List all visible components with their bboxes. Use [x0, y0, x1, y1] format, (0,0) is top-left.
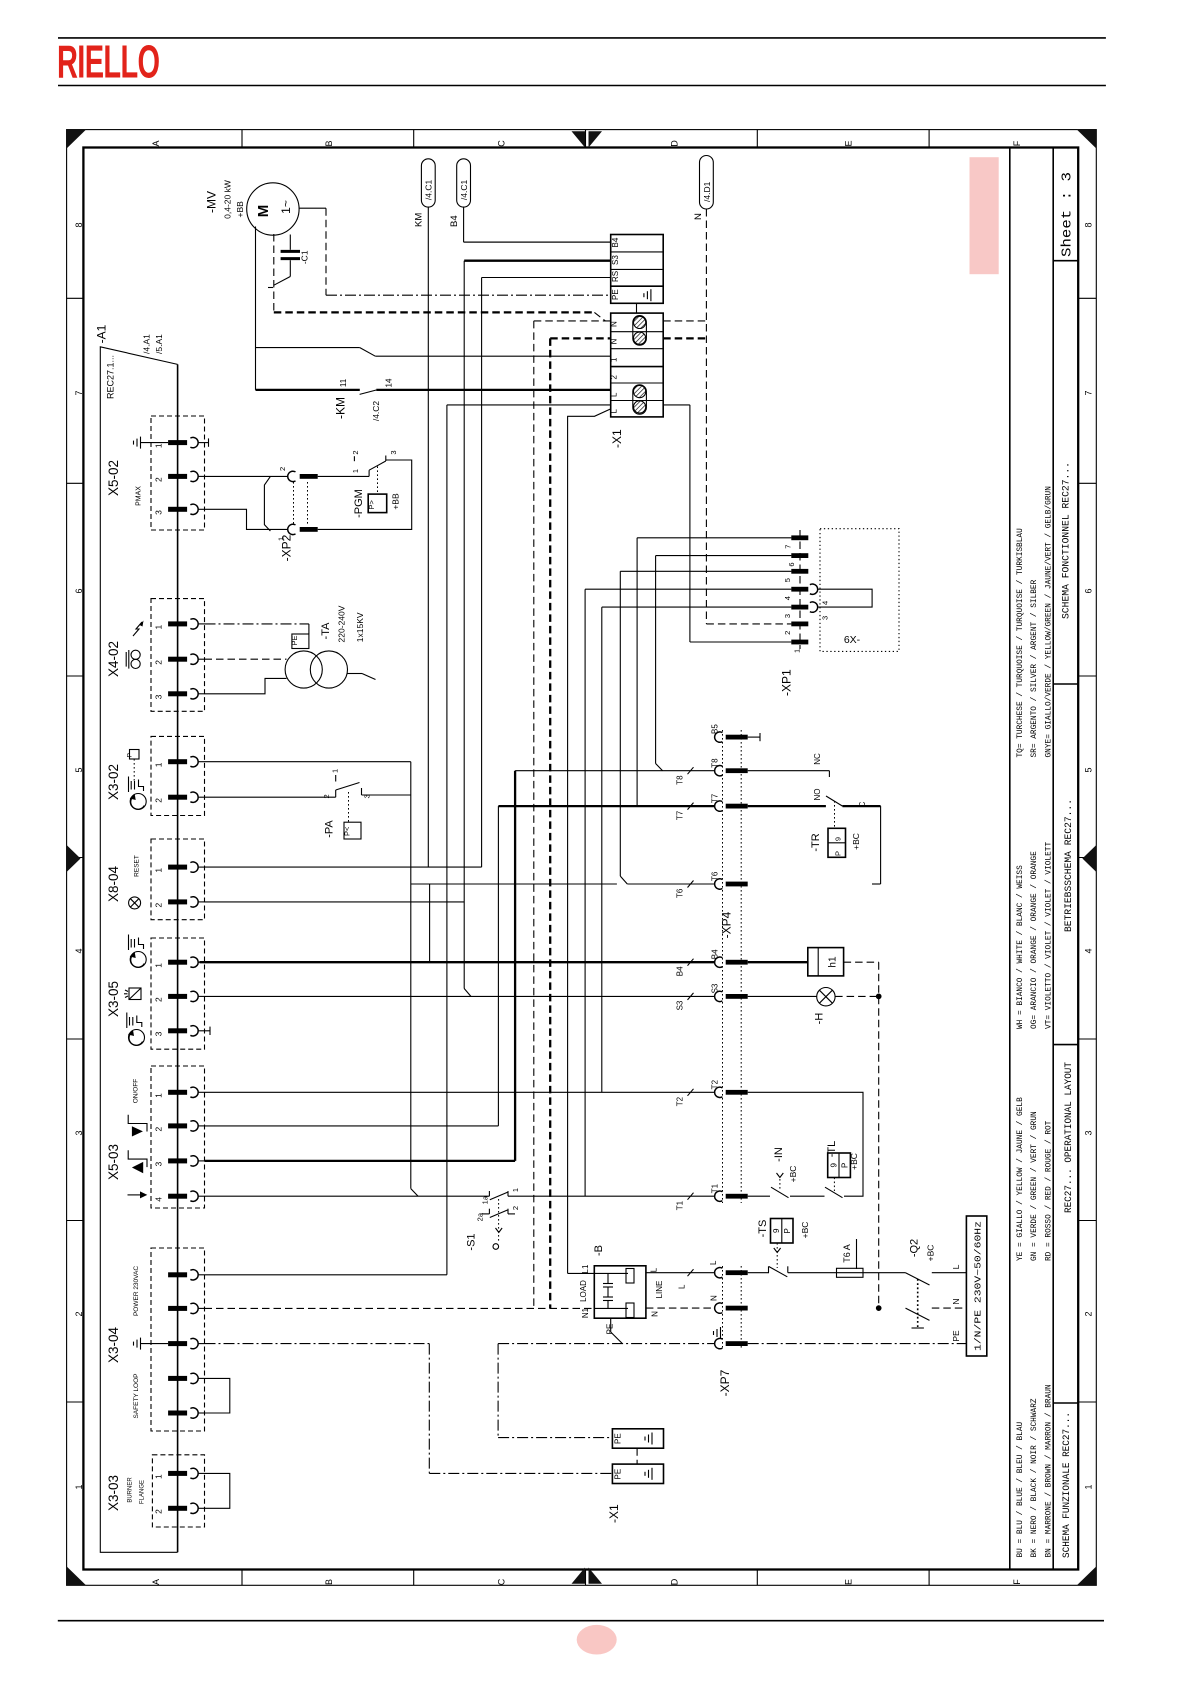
wire to XP1 pin1 [690, 641, 792, 643]
svg-text:2: 2 [322, 794, 331, 798]
transformer TA secondary circle [310, 651, 347, 688]
svg-text:PE: PE [614, 1433, 623, 1444]
wire B4 pill to X1 B4 row [463, 207, 465, 242]
svg-text:X3-02: X3-02 [106, 764, 121, 800]
TA high voltage output [348, 673, 363, 675]
capacitor C1 [289, 235, 291, 250]
fuse label underline [856, 1239, 858, 1269]
svg-text:BK = NERO / BLACK / NOIR / SCH: BK = NERO / BLACK / NOIR / SCHWARZ [1031, 1398, 1039, 1557]
connector XP2 pin 1 [300, 527, 318, 532]
svg-text:-TS: -TS [757, 1220, 769, 1238]
wire PE1 to X1 PE terminal 2 [429, 1472, 612, 1474]
svg-text:2: 2 [351, 450, 360, 454]
frame right strip divider [1078, 675, 1096, 677]
svg-text:6: 6 [74, 588, 84, 593]
svg-text:X3-03: X3-03 [106, 1475, 121, 1511]
wire lane N dashed from h1 to XP7 N [878, 962, 880, 1308]
wire T2 loop right side [748, 1092, 863, 1196]
frame top strip divider [585, 130, 587, 148]
svg-text:2: 2 [154, 1126, 164, 1131]
wire lane X1 L2 to XP1 pin1 [689, 405, 691, 642]
filter B box [594, 1266, 646, 1318]
svg-text:N: N [651, 1311, 660, 1317]
motor enclosure dashed box [273, 234, 275, 312]
svg-text:P: P [833, 851, 842, 856]
wire lane T6 to B4 junction [429, 884, 431, 962]
XP4 body dotted line 2 [740, 730, 742, 1203]
svg-text:RS: RS [611, 271, 620, 282]
svg-text:7: 7 [1084, 390, 1094, 395]
frame outer border [67, 130, 1097, 1586]
svg-text:T1: T1 [711, 1183, 720, 1193]
svg-text:C: C [497, 1578, 507, 1585]
svg-text:-TL: -TL [826, 1141, 838, 1158]
wire lamp H to N lane (dashed) [835, 995, 879, 997]
svg-text:B5: B5 [711, 724, 720, 734]
svg-text:X5-03: X5-03 [106, 1144, 121, 1180]
svg-text:PE: PE [611, 289, 620, 300]
frame left strip divider [67, 1401, 84, 1403]
connector X3-03 pin 1 [168, 1471, 187, 1476]
wire B L to XP7 L [646, 1272, 715, 1274]
svg-text:/4.A1: /4.A1 [141, 334, 151, 354]
terminal X1 PE box 2 [612, 1464, 663, 1483]
svg-text:T1: T1 [676, 1200, 685, 1210]
switch S1 contact A [488, 1191, 490, 1196]
svg-text:BU = BLU / BLUE / BLEU / BLAU: BU = BLU / BLUE / BLEU / BLAU [1017, 1421, 1025, 1557]
fold mark right-center [1082, 845, 1096, 872]
svg-text:N1: N1 [581, 1307, 590, 1318]
socket arc XP2 pin2 [288, 471, 296, 481]
svg-text:/4.D1: /4.D1 [702, 181, 712, 202]
svg-text:2: 2 [154, 660, 164, 665]
switch TS contact blade [768, 1266, 770, 1272]
svg-text:X3-05: X3-05 [106, 981, 121, 1017]
connector XP2 shell bracket [264, 476, 270, 531]
svg-text:220-240V: 220-240V [336, 605, 346, 642]
svg-text:D: D [670, 140, 680, 147]
svg-text:14: 14 [385, 378, 394, 387]
wire T1 from X5-03 pin4 [205, 1195, 490, 1197]
frame bottom strip divider [928, 1570, 930, 1586]
frame top strip divider [928, 130, 930, 148]
wire B4 to h1 (thick) [748, 961, 808, 963]
svg-text:3: 3 [74, 1130, 84, 1135]
frame left strip divider [67, 1220, 84, 1222]
svg-text:3: 3 [154, 1031, 164, 1036]
svg-text:-MV: -MV [204, 191, 218, 213]
svg-text:2: 2 [154, 477, 164, 482]
svg-text:2: 2 [278, 467, 287, 471]
svg-text:L: L [610, 392, 619, 397]
svg-text:L: L [650, 1267, 659, 1272]
pressure icon box X3-02 [130, 750, 140, 760]
svg-text:/4.C1: /4.C1 [424, 180, 434, 201]
connector X9 dotted box [820, 529, 899, 652]
svg-text:7: 7 [74, 390, 84, 395]
wire lane XP1 pin6 to T8 [655, 556, 657, 764]
connector X3-04 pin L [168, 1272, 187, 1277]
frame bottom strip divider [585, 1570, 587, 1586]
legend panel middle border [1052, 148, 1054, 1570]
svg-text:-A1: -A1 [95, 324, 109, 343]
wire N row 2 to N pill lane (thick dashed) [663, 337, 706, 339]
svg-text:X8-04: X8-04 [106, 865, 121, 902]
svg-text:-PA: -PA [323, 820, 335, 838]
svg-text:T2: T2 [711, 1079, 720, 1089]
wire PE dash-dot to XP7 PE [498, 1343, 714, 1345]
wire XP1 pin3 [602, 606, 792, 608]
TS actuator dotted link [776, 1243, 778, 1268]
contact XP4 T8 [715, 766, 723, 776]
wire X5-02 pin3 to XP2 pin1 [205, 509, 288, 529]
svg-text:N: N [951, 1298, 961, 1304]
svg-text:4: 4 [821, 601, 830, 605]
svg-text:D: D [670, 1578, 680, 1585]
XP4 body dotted line 1 [722, 730, 724, 1203]
connector X5-03 pin 4 [168, 1194, 187, 1199]
svg-text:-TR: -TR [810, 833, 822, 851]
wire lane L to filter B [567, 416, 569, 1273]
svg-text:PE: PE [290, 635, 299, 645]
connector XP1 pin 2 [791, 622, 808, 627]
svg-text:2: 2 [511, 1206, 520, 1210]
svg-text:-XP7: -XP7 [718, 1369, 732, 1396]
wire lane N1 (dashed) [533, 321, 535, 1309]
fold mark bottom-left [67, 1566, 86, 1585]
pressure icon dashed link [133, 759, 135, 782]
wire lane RS to X8-04 pin1 [481, 278, 483, 868]
connector X5-03 pin 2 [168, 1123, 187, 1128]
svg-text:WH = BIANCO / WHITE / BLANC /: WH = BIANCO / WHITE / BLANC / WEISS [1017, 865, 1025, 1029]
jog XP1 pin5 lane to T6 wire [620, 876, 627, 884]
cross-reference pill N /4.D1 [700, 156, 714, 210]
svg-text:1: 1 [792, 649, 801, 653]
svg-text:/4.C2: /4.C2 [371, 401, 381, 422]
svg-text:E: E [843, 1579, 853, 1585]
svg-text:h1: h1 [828, 956, 839, 968]
connector X3-02 pin 2 [168, 795, 187, 800]
XP1 connector body dashed line [799, 530, 801, 649]
arrow icon X5-03 pin4 [128, 1194, 142, 1196]
svg-text:P<: P< [343, 826, 352, 836]
svg-text:RD = ROSSO / RED / ROUGE / ROT: RD = ROSSO / RED / ROUGE / ROT [1045, 1120, 1053, 1261]
wire N row 1 dashed left branch [534, 320, 611, 322]
svg-text:S3: S3 [711, 983, 720, 993]
svg-text:L1: L1 [581, 1264, 590, 1273]
wire N row 2 thick dashed left branch [550, 337, 611, 339]
terminator tick X5-02 pin1 [205, 442, 209, 444]
connector X4-02 pin 2 [168, 657, 187, 662]
wire X8-04 pin1 to RS lane [205, 866, 482, 868]
centrifugal switch in motor [274, 277, 290, 286]
svg-text:OG= ARANCIO / ORANGE / ORANGE: OG= ARANCIO / ORANGE / ORANGE / ORANGE [1031, 851, 1039, 1029]
svg-text:-C1: -C1 [299, 250, 309, 264]
frame right strip divider [1078, 482, 1096, 484]
burner flange jumper wire [205, 1473, 230, 1508]
connector X8-04 pin 2 [168, 899, 187, 904]
svg-text:NC: NC [813, 753, 822, 765]
svg-text:1: 1 [74, 1484, 84, 1489]
motor MV circle [247, 183, 299, 235]
svg-text:N: N [693, 213, 704, 220]
svg-text:3: 3 [821, 616, 830, 620]
jog XP1 pin6 lane to T8 wire [656, 764, 663, 771]
switch S1 contact B (spare) [482, 1213, 489, 1215]
socket arc XP1 pin4 [810, 584, 818, 594]
svg-text:GN = VERDE / GREEN / VERT / GR: GN = VERDE / GREEN / VERT / GRUN [1031, 1111, 1039, 1261]
wire TS to fuse [788, 1272, 837, 1274]
ground symbol XP7 PE [720, 1327, 722, 1339]
wire N row 1 to N pill lane (dashed) [663, 320, 706, 322]
pressure switch PA box [344, 822, 361, 839]
switch Q2 N pole [906, 1308, 930, 1320]
XP7 body dotted line 1 [722, 1266, 724, 1350]
svg-text:1: 1 [351, 469, 360, 473]
frame right strip divider [1078, 1038, 1096, 1040]
svg-text:T6: T6 [676, 888, 685, 898]
ground symbol X1 PE row [650, 289, 652, 301]
connector XP1 pin 7 [791, 535, 808, 540]
svg-text:-KM: -KM [334, 397, 348, 419]
svg-text:Sheet : 3: Sheet : 3 [1061, 172, 1076, 257]
svg-text:-H: -H [814, 1013, 826, 1025]
safety loop jumper wire [205, 1378, 230, 1413]
svg-text:L: L [951, 1264, 961, 1269]
title column cell divider [1053, 683, 1078, 685]
wire lane T8 to X5-03 pin3 (thick) [514, 771, 516, 1161]
wire motor PE lead [299, 207, 326, 209]
connector XP1 pin 4 [791, 587, 808, 592]
contact XP4 T2 [715, 1087, 723, 1097]
frame right strip divider [1078, 297, 1096, 299]
contact TR blade [826, 796, 843, 806]
svg-text:1: 1 [154, 762, 164, 767]
switch Q2 L pole [906, 1273, 930, 1285]
wire B N to XP7 N (dashed) [646, 1307, 715, 1309]
svg-text:T7: T7 [711, 793, 720, 803]
svg-text:T6 A: T6 A [842, 1244, 852, 1263]
legend panel left border [1009, 148, 1011, 1570]
svg-text:SCHEMA FUNZIONALE REC27...: SCHEMA FUNZIONALE REC27... [1062, 1412, 1073, 1558]
wire earth to X5-02 pin1 bar [141, 442, 169, 444]
wire X3-02 pin2 to PA common [205, 796, 336, 798]
contact XP4 S3 [715, 991, 723, 1001]
connector X3-04 dashed box [151, 1248, 205, 1431]
fan icon X3-05 upper [130, 952, 146, 968]
svg-text:PE: PE [614, 1469, 623, 1480]
header top rule [58, 37, 1106, 39]
wire motor N (thick dashed) to X1 N [274, 311, 595, 313]
XP7 body dotted line 2 [740, 1266, 742, 1350]
svg-text:1: 1 [154, 624, 164, 629]
svg-text:F: F [1012, 140, 1022, 146]
wire lane X3-02 pin1 / T6 / X5-03 pin4 [410, 762, 412, 1189]
contact XP4 B5 [715, 732, 723, 742]
fuse T6A [837, 1268, 864, 1277]
wire lane XP1 pin3 to T2 [601, 607, 603, 1092]
wire S3 row (thick) [464, 260, 611, 262]
frame inner border [83, 148, 1078, 1570]
XP2 body dotted line 2 [307, 482, 309, 524]
thermostat TR box [828, 828, 846, 857]
svg-text:+BC: +BC [788, 1166, 798, 1183]
frame bottom strip divider [241, 1570, 243, 1586]
pressure switch PGM box [368, 494, 387, 512]
connector X3-04 pin PE [168, 1341, 187, 1346]
jog X1 L row to L lane [567, 409, 611, 416]
wire PGM 3 loop back to XP2 pin1 [318, 460, 412, 529]
wire X4-02 pin2 to TA (dashed) [205, 658, 287, 660]
svg-text:/4.C1: /4.C1 [459, 180, 469, 201]
svg-text:S3: S3 [611, 255, 620, 265]
connector X4-02 pin 1 [168, 621, 187, 626]
connector X5-02 dashed box [151, 416, 205, 530]
terminal block X1 lower [611, 313, 664, 417]
svg-text:FLANGE: FLANGE [140, 1480, 146, 1504]
fold mark top-left [67, 130, 86, 149]
svg-text:4: 4 [1084, 948, 1094, 953]
connector XP1 pin 5 [791, 569, 808, 574]
title column cell divider [1053, 260, 1078, 262]
ground symbol in A1 at X5-02 pin1 [140, 437, 142, 449]
ground symbol X3-04 PE pin [140, 1338, 142, 1350]
svg-text:X4-02: X4-02 [106, 641, 121, 677]
title column cell divider [1053, 1044, 1078, 1046]
connector X3-04 safety loop pin b [168, 1411, 187, 1416]
connector X8-04 pin 1 [168, 865, 187, 870]
svg-text:B4: B4 [449, 215, 460, 227]
svg-text:1~: 1~ [279, 200, 293, 214]
terminal block X1 upper [611, 235, 664, 304]
frame bottom strip divider [756, 1570, 758, 1586]
svg-text:RESET: RESET [134, 855, 141, 877]
jumper loop X9 pins 4-3 [818, 589, 872, 607]
wire X3-02 pin1 to lane [205, 761, 411, 763]
svg-text:3: 3 [154, 694, 164, 699]
stub B5 [748, 736, 760, 738]
svg-text:2a: 2a [476, 1212, 485, 1221]
svg-text:REC27... OPERATIONAL LAYOUT: REC27... OPERATIONAL LAYOUT [1064, 1062, 1075, 1213]
svg-text:A: A [151, 1579, 161, 1585]
svg-text:1/N/PE 230V~50/60Hz: 1/N/PE 230V~50/60Hz [972, 1221, 983, 1351]
contact XP4 T1 [715, 1191, 723, 1201]
terminator tick X3-05 pin3 [205, 1030, 211, 1032]
title column cell divider [1053, 1402, 1078, 1404]
connector XP1 pin 3 [791, 605, 808, 610]
wire X5-03 pin2 to T7 lane [205, 1125, 499, 1127]
pressure switch PA contact [335, 790, 337, 797]
wire L thick from motor to X1 (KM contact) [256, 389, 360, 391]
wire motor main lead down to KM line [255, 227, 257, 390]
svg-text:F: F [1012, 1579, 1022, 1585]
svg-text:-X1: -X1 [607, 1504, 621, 1523]
wire N pill dashed lane [705, 209, 707, 624]
wire lane XP1 pin7 to T7 [636, 538, 638, 806]
svg-text:3: 3 [783, 614, 792, 618]
connector X3-04 safety loop pin a [168, 1376, 187, 1381]
svg-text:1: 1 [154, 1474, 164, 1479]
frame left strip divider [67, 297, 84, 299]
svg-text:3: 3 [1084, 1130, 1094, 1135]
connector X3-02 dashed box [151, 736, 205, 815]
wire N dashed to B N1 [205, 1307, 595, 1309]
indicator h1 box [808, 948, 844, 976]
svg-text:LINE: LINE [655, 1281, 664, 1299]
wire lane PE2 (dash-dot) [497, 1344, 499, 1438]
svg-text:B: B [324, 1579, 334, 1585]
socket arc XP2 pin1 [288, 524, 296, 534]
filter B internal components [594, 1272, 628, 1274]
wire PE to mains box [748, 1343, 967, 1345]
connector XP2 pin 2 [300, 474, 318, 479]
connector X3-05 pin 3 [168, 1028, 187, 1033]
svg-text:2: 2 [783, 631, 792, 635]
svg-text:8: 8 [1084, 222, 1094, 227]
fold mark left-center [67, 845, 81, 872]
svg-text:C: C [497, 140, 507, 147]
svg-text:1: 1 [1084, 1484, 1094, 1489]
svg-text:-XP1: -XP1 [780, 669, 794, 696]
wire PE motor to X1 PE row (dash-dot) [326, 294, 611, 296]
X1 L terminals hatched circles [633, 385, 647, 414]
PA actuator dotted link [348, 792, 350, 822]
cross-reference pill KM /4.C1 [421, 159, 435, 207]
svg-text:-XP4: -XP4 [720, 911, 734, 938]
PGM actuator dotted link [377, 466, 379, 494]
wire lane S3 [463, 261, 465, 989]
frame left strip divider [67, 675, 84, 677]
wire PE2 to X1 PE terminal 1 [498, 1437, 612, 1439]
svg-text:2: 2 [154, 798, 164, 803]
wire X5-02 pin2 to XP2 pin2 [205, 475, 288, 477]
header bottom rule [58, 85, 1106, 87]
svg-text:1: 1 [154, 443, 164, 448]
svg-text:GNYE= GIALLO/VERDE / YELLOW/GR: GNYE= GIALLO/VERDE / YELLOW/GREEN / JAUN… [1045, 486, 1053, 758]
svg-text:0,4-20 kW: 0,4-20 kW [223, 180, 233, 219]
svg-text:BN = MARRONE / BROWN / MARRON: BN = MARRONE / BROWN / MARRON / BRAUN [1045, 1384, 1053, 1557]
wire XP1 pin6 [656, 555, 792, 557]
X1 N terminals hatched circles [633, 316, 647, 346]
fold mark bottom-right [1077, 1566, 1096, 1585]
svg-text:YE = GIALLO / YELLOW / JAUNE /: YE = GIALLO / YELLOW / JAUNE / GELB [1017, 1097, 1025, 1261]
svg-text:P: P [127, 753, 134, 757]
jog S3 lane to S3 wire [464, 989, 471, 997]
svg-text:T8: T8 [676, 775, 685, 785]
svg-text:1: 1 [154, 1093, 164, 1098]
contact XP7 N [715, 1303, 723, 1313]
svg-text:-B: -B [593, 1245, 605, 1256]
contact KM blade [360, 390, 377, 394]
high flame icon X5-03 [128, 1115, 147, 1132]
connector X5-02 pin 1 [168, 440, 187, 445]
svg-text:/5.A1: /5.A1 [154, 334, 164, 354]
svg-text:RIELLO: RIELLO [57, 37, 159, 88]
svg-text:L: L [709, 1260, 718, 1265]
contact XP7 PE [715, 1338, 723, 1348]
svg-text:+BB: +BB [391, 493, 401, 510]
svg-text:+BB: +BB [235, 201, 245, 218]
svg-text:+BC: +BC [800, 1222, 810, 1239]
wire B4 from X3-05 pin1 (thick) [200, 961, 715, 963]
pressure switch PGM contact [368, 470, 370, 476]
svg-text:KM: KM [414, 213, 425, 227]
frame top strip divider [756, 130, 758, 148]
svg-text:11: 11 [339, 378, 348, 387]
photocell icon X3-05 [129, 988, 141, 1000]
svg-text:5: 5 [1084, 767, 1094, 772]
lamp H [817, 988, 835, 1006]
